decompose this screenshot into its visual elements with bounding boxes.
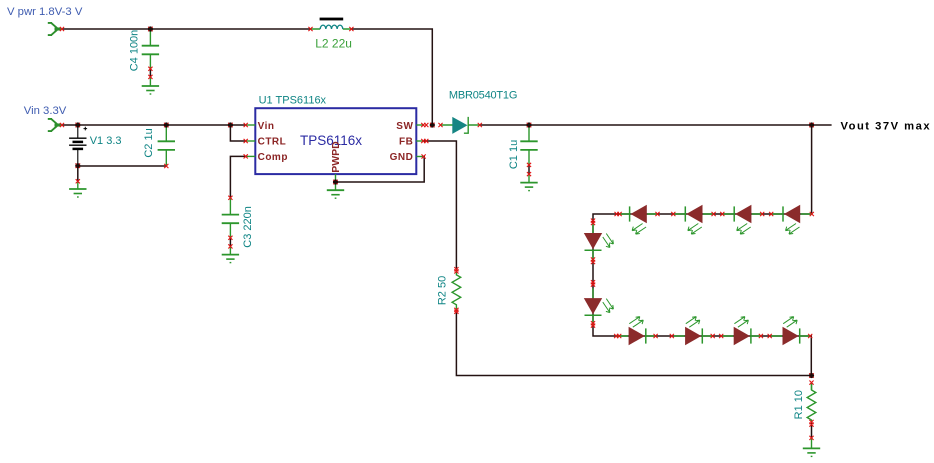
- wire Vin rail: [62, 124, 246, 126]
- wire top rail right + drop to SW node: [351, 29, 432, 125]
- junction PWPD ground node: [333, 179, 338, 184]
- LED D8 (bottom row, leftmost): [617, 317, 657, 346]
- pin stub PWPD: [335, 174, 337, 182]
- ground (R1): [803, 448, 820, 456]
- wire top rail left: [62, 28, 311, 30]
- svg-text:SW: SW: [396, 121, 413, 132]
- ground (C1): [520, 183, 537, 191]
- LED D10: [722, 317, 762, 346]
- svg-text:C2 1u: C2 1u: [143, 128, 155, 157]
- svg-text:Vin: Vin: [258, 121, 275, 132]
- capacitor C2: [158, 125, 175, 166]
- wire branch to CTRL: [230, 125, 245, 141]
- ground (V1): [69, 189, 86, 197]
- pin stub CTRL: [246, 140, 256, 142]
- svg-text:R1 10: R1 10: [793, 390, 805, 419]
- battery V1: [69, 125, 87, 166]
- junction R1 top: [809, 373, 814, 378]
- pin stub FB: [416, 140, 423, 142]
- svg-text:U1 TPS6116x: U1 TPS6116x: [259, 95, 327, 107]
- pin stub Comp: [246, 155, 256, 157]
- junction C1 top: [526, 122, 531, 127]
- svg-text:FB: FB: [399, 137, 413, 148]
- ground (U1 PWPD): [327, 190, 344, 198]
- junction CTRL branch: [228, 122, 233, 127]
- junction C2 top: [164, 122, 169, 127]
- LED D5: [619, 205, 659, 234]
- svg-text:L2 22u: L2 22u: [315, 37, 352, 51]
- svg-text:CTRL: CTRL: [258, 137, 287, 148]
- svg-text:PWPD: PWPD: [330, 141, 342, 173]
- inductor L2: [311, 18, 352, 29]
- pin X marks: [60, 27, 814, 440]
- LED D9: [674, 317, 714, 346]
- junction Vout branch: [809, 122, 814, 127]
- ground (C4): [142, 86, 159, 94]
- junction V1 top: [75, 122, 80, 127]
- capacitor C1: [520, 125, 537, 183]
- capacitor C4: [142, 29, 159, 86]
- pin stub Vin: [246, 124, 256, 126]
- svg-text:R2 50: R2 50: [437, 276, 449, 305]
- wire GND pin to ground node: [336, 157, 425, 183]
- wire diode to Vout: [480, 124, 832, 126]
- junction C4 top: [148, 26, 153, 31]
- wire Comp to C3: [230, 156, 245, 197]
- svg-text:Vin 3.3V: Vin 3.3V: [24, 105, 67, 117]
- LED D3: [723, 205, 763, 234]
- svg-text:V pwr 1.8V-3 V: V pwr 1.8V-3 V: [7, 6, 83, 18]
- svg-text:C1 1u: C1 1u: [508, 140, 520, 169]
- junction SW node: [430, 122, 435, 127]
- capacitor C3: [222, 198, 239, 255]
- pin stub SW: [416, 124, 423, 126]
- wire LED string loop: [593, 214, 812, 376]
- svg-text:MBR0540T1G: MBR0540T1G: [449, 90, 517, 102]
- wire R2 bottom to LED return: [456, 310, 811, 375]
- wire battery to ground: [77, 166, 79, 181]
- junction V1 bottom: [75, 163, 80, 168]
- ground (C3): [222, 255, 239, 263]
- wire FB to R2: [423, 141, 456, 269]
- svg-text:Vout 37V max: Vout 37V max: [841, 121, 932, 133]
- wire Vout branch down to LED string: [811, 125, 813, 214]
- svg-text:Comp: Comp: [258, 152, 288, 163]
- LED D7 (left column, lower): [584, 288, 614, 326]
- svg-text:GND: GND: [390, 152, 414, 163]
- connector J1 (V pwr): [48, 23, 62, 35]
- LED D6 (left column, upper): [584, 223, 614, 261]
- LED D11 (bottom row, rightmost): [771, 317, 811, 346]
- svg-text:V1 3.3: V1 3.3: [90, 135, 122, 147]
- wire battery bottom to C2 bottom: [78, 165, 167, 167]
- resistor R2: [452, 269, 461, 310]
- connector J2 (Vin): [48, 119, 62, 131]
- resistor R1: [807, 383, 816, 449]
- diode D1 MBR0540T1G: [441, 117, 480, 134]
- svg-text:C4 100n: C4 100n: [129, 30, 141, 72]
- svg-text:C3 220n: C3 220n: [242, 206, 254, 248]
- IC U1 box: [255, 108, 416, 174]
- pin stub GND: [416, 156, 423, 158]
- LED D4: [674, 205, 714, 234]
- LED D2 (top row, rightmost): [772, 205, 812, 234]
